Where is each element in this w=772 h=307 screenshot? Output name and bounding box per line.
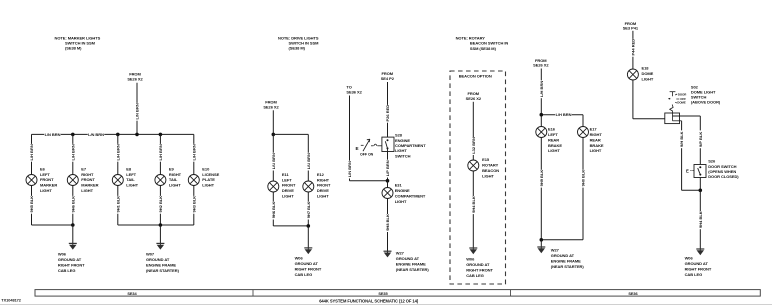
svg-text:LIGHT: LIGHT <box>548 148 560 153</box>
svg-text:RIGHT FRONT: RIGHT FRONT <box>685 266 712 271</box>
svg-text:LIGHT: LIGHT <box>169 183 181 188</box>
svg-text:L/H BRN: L/H BRN <box>539 81 544 97</box>
svg-text:9H7 BLK: 9H7 BLK <box>306 202 311 219</box>
svg-text:GROUND AT: GROUND AT <box>58 257 82 262</box>
svg-text:SE26 X2: SE26 X2 <box>127 77 143 82</box>
svg-text:CAB LEG: CAB LEG <box>685 272 703 277</box>
svg-text:9H0 BLK: 9H0 BLK <box>580 170 585 187</box>
svg-text:L/U BRN: L/U BRN <box>271 153 276 169</box>
svg-text:LICENSE: LICENSE <box>202 172 219 177</box>
svg-text:L/H BRN: L/H BRN <box>70 144 75 160</box>
svg-text:SE26 X2: SE26 X2 <box>466 96 482 101</box>
svg-text:SSM (SE38 M): SSM (SE38 M) <box>470 46 497 51</box>
svg-text:FRONT: FRONT <box>282 183 296 188</box>
svg-text:SE36: SE36 <box>628 291 638 296</box>
svg-text:LEFT: LEFT <box>282 177 292 182</box>
svg-text:TX1048172: TX1048172 <box>1 297 21 302</box>
svg-text:SE26 X2: SE26 X2 <box>263 105 279 110</box>
svg-text:P26 RED: P26 RED <box>385 105 390 122</box>
svg-text:W06: W06 <box>58 252 67 257</box>
svg-text:GROUND AT: GROUND AT <box>466 262 490 267</box>
svg-text:9/P BLK: 9/P BLK <box>698 132 703 147</box>
svg-text:FRONT: FRONT <box>317 183 331 188</box>
svg-text:CAB LEG: CAB LEG <box>295 272 313 277</box>
svg-text:LIGHT: LIGHT <box>590 148 602 153</box>
svg-text:GROUND AT: GROUND AT <box>685 261 709 266</box>
svg-text:LEFT: LEFT <box>548 132 558 137</box>
svg-text:9H8 BLK: 9H8 BLK <box>385 214 390 231</box>
svg-text:ENGINE FRAME: ENGINE FRAME <box>146 263 176 268</box>
svg-text:LEFT: LEFT <box>126 172 136 177</box>
svg-text:FRONT: FRONT <box>40 177 54 182</box>
svg-text:E6: E6 <box>40 166 46 171</box>
svg-text:E16: E16 <box>548 127 556 132</box>
svg-text:COMPARTMENT: COMPARTMENT <box>395 193 426 198</box>
svg-text:W07: W07 <box>146 252 155 257</box>
svg-text:E31: E31 <box>395 182 403 187</box>
svg-text:SE35: SE35 <box>378 291 388 296</box>
svg-text:9H1 BLK: 9H1 BLK <box>115 196 120 213</box>
svg-text:L/H BRN: L/H BRN <box>191 144 196 160</box>
svg-text:L/H BRN: L/H BRN <box>29 144 34 160</box>
svg-text:REAR: REAR <box>590 137 601 142</box>
svg-text:9H6 BLK: 9H6 BLK <box>70 196 75 213</box>
svg-text:(NEAR STARTER): (NEAR STARTER) <box>396 267 430 272</box>
svg-text:9H6 BLK: 9H6 BLK <box>271 202 276 219</box>
svg-text:9H4 BLK: 9H4 BLK <box>471 196 476 213</box>
svg-text:MARKER: MARKER <box>40 183 57 188</box>
svg-text:L32 BRN: L32 BRN <box>471 137 476 154</box>
svg-text:L/P BRN: L/P BRN <box>385 160 390 176</box>
svg-text:L/N BRN: L/N BRN <box>134 103 139 119</box>
svg-text:E: E <box>356 146 359 151</box>
svg-text:L/H BRN: L/H BRN <box>115 144 120 160</box>
svg-text:SE34: SE34 <box>127 291 137 296</box>
svg-text:ENGINE FRAME: ENGINE FRAME <box>396 261 426 266</box>
svg-text:DRIVE: DRIVE <box>317 188 329 193</box>
svg-text:GROUND AT: GROUND AT <box>146 257 170 262</box>
svg-text:9/H BLK: 9/H BLK <box>679 131 684 147</box>
svg-text:LIGHT: LIGHT <box>482 173 494 178</box>
svg-text:9H2 BLK: 9H2 BLK <box>158 196 163 213</box>
svg-text:9H5 BLK: 9H5 BLK <box>29 196 34 213</box>
svg-text:BEACON: BEACON <box>482 168 499 173</box>
svg-text:W06: W06 <box>685 255 694 260</box>
svg-text:ENGINE: ENGINE <box>395 188 410 193</box>
svg-text:DOME: DOME <box>677 101 686 105</box>
svg-text:W27: W27 <box>396 250 405 255</box>
svg-text:W06: W06 <box>295 256 304 261</box>
svg-text:BEACON OPTION: BEACON OPTION <box>459 73 492 78</box>
svg-text:RIGHT: RIGHT <box>317 177 330 182</box>
svg-text:RIGHT FRONT: RIGHT FRONT <box>58 263 85 268</box>
svg-text:E17: E17 <box>590 127 598 132</box>
svg-text:RIGHT: RIGHT <box>590 132 603 137</box>
svg-text:BRAKE: BRAKE <box>590 143 604 148</box>
svg-text:LIGHT: LIGHT <box>202 183 214 188</box>
svg-text:LIGHT: LIGHT <box>282 194 294 199</box>
svg-text:LIGHT: LIGHT <box>317 194 329 199</box>
svg-text:L/H BRN: L/H BRN <box>556 112 572 117</box>
svg-text:E7: E7 <box>81 166 87 171</box>
svg-text:LIGHT: LIGHT <box>126 183 138 188</box>
svg-text:LIGHT: LIGHT <box>81 188 93 193</box>
svg-text:LIGHT: LIGHT <box>395 199 407 204</box>
svg-text:L/H BRN: L/H BRN <box>158 144 163 160</box>
svg-text:REAR: REAR <box>548 137 559 142</box>
svg-text:SE4 P2: SE4 P2 <box>381 76 395 81</box>
svg-text:E9: E9 <box>169 166 175 171</box>
svg-text:(SE38 M): (SE38 M) <box>289 46 306 51</box>
svg-text:(NEAR STARTER): (NEAR STARTER) <box>551 264 585 269</box>
svg-text:RIGHT FRONT: RIGHT FRONT <box>466 268 493 273</box>
svg-text:L/N BRN: L/N BRN <box>88 132 104 137</box>
svg-text:(SE38 M): (SE38 M) <box>65 46 82 51</box>
svg-text:W06: W06 <box>466 257 475 262</box>
svg-text:RIGHT: RIGHT <box>169 172 182 177</box>
svg-text:E15: E15 <box>482 157 490 162</box>
svg-text:P44 RED: P44 RED <box>630 39 635 56</box>
svg-text:DRIVE: DRIVE <box>282 188 294 193</box>
svg-text:SE3 P41: SE3 P41 <box>623 25 639 30</box>
svg-text:(NEAR STARTER): (NEAR STARTER) <box>146 268 180 273</box>
svg-text:FRONT: FRONT <box>81 177 95 182</box>
svg-text:BRAKE: BRAKE <box>548 143 562 148</box>
svg-text:9H3 BLK: 9H3 BLK <box>191 196 196 213</box>
svg-text:E8: E8 <box>126 166 132 171</box>
svg-text:SWITCH: SWITCH <box>395 153 411 158</box>
svg-text:L/N BRN: L/N BRN <box>45 132 61 137</box>
svg-text:CAB LEG: CAB LEG <box>58 268 76 273</box>
svg-text:RIGHT FRONT: RIGHT FRONT <box>295 267 322 272</box>
svg-text:E10: E10 <box>202 166 210 171</box>
svg-text:E: E <box>686 169 689 174</box>
svg-text:OFF ON: OFF ON <box>360 153 374 157</box>
svg-text:DOOR: DOOR <box>678 92 687 96</box>
svg-text:L/U BRN: L/U BRN <box>306 153 311 169</box>
svg-text:LIGHT: LIGHT <box>40 188 52 193</box>
svg-text:E12: E12 <box>317 172 325 177</box>
svg-text:DOME: DOME <box>642 71 654 76</box>
svg-text:SE26 X2: SE26 X2 <box>533 63 549 68</box>
svg-text:GROUND AT: GROUND AT <box>295 261 319 266</box>
svg-text:GROUND AT: GROUND AT <box>396 256 420 261</box>
svg-text:ENGINE FRAME: ENGINE FRAME <box>551 258 581 263</box>
svg-text:E11: E11 <box>282 172 290 177</box>
svg-text:PLATE: PLATE <box>202 177 215 182</box>
svg-text:ROTARY: ROTARY <box>482 162 498 167</box>
svg-text:(ABOVE DOOR): (ABOVE DOOR) <box>691 100 721 105</box>
svg-text:RIGHT: RIGHT <box>81 172 94 177</box>
svg-text:9H4 BLK: 9H4 BLK <box>698 211 703 228</box>
svg-text:LIGHT: LIGHT <box>642 77 654 82</box>
svg-text:W27: W27 <box>551 247 560 252</box>
svg-text:TAIL: TAIL <box>169 177 178 182</box>
svg-text:GROUND AT: GROUND AT <box>551 253 575 258</box>
svg-text:CAB LEG: CAB LEG <box>466 273 484 278</box>
svg-text:L/N BRN: L/N BRN <box>347 161 352 177</box>
svg-text:TAIL: TAIL <box>126 177 135 182</box>
svg-text:SE36 X2: SE36 X2 <box>346 90 362 95</box>
svg-text:644K SYSTEM FUNCTIONAL SCHEMAT: 644K SYSTEM FUNCTIONAL SCHEMATIC (12 OF … <box>319 299 419 304</box>
svg-text:DOOR CLOSED): DOOR CLOSED) <box>708 174 739 179</box>
svg-text:9H9 BLK: 9H9 BLK <box>539 170 544 187</box>
svg-text:E18: E18 <box>642 66 650 71</box>
svg-text:LEFT: LEFT <box>40 172 50 177</box>
svg-text:MARKER: MARKER <box>81 183 98 188</box>
